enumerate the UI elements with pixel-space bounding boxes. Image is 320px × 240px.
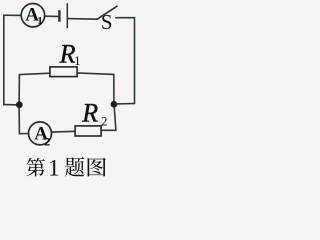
resistor R1 box — [50, 67, 77, 77]
svg-text:2: 2 — [44, 134, 50, 148]
svg-text:R: R — [81, 99, 98, 128]
svg-text:R: R — [59, 40, 76, 69]
ammeter A1 — [21, 4, 44, 27]
wire right vertical — [134, 18, 136, 104]
caption text 第 — [26, 158, 45, 177]
wire A1 to battery — [45, 15, 59, 17]
caption text 题 — [65, 157, 84, 177]
wire left vertical — [3, 15, 5, 104]
wire R2 right — [101, 129, 116, 131]
wire left jog to node A — [4, 104, 16, 106]
wire R1 left — [19, 73, 50, 74]
wire right jog to node B — [117, 103, 135, 105]
node A junction dot — [16, 101, 23, 108]
ammeter A2 — [29, 122, 52, 145]
svg-text:2: 2 — [101, 113, 108, 128]
wire inner right vertical upper (R1 to node B) — [113, 74, 115, 104]
wire node A down to A2 row — [19, 105, 28, 134]
wire R1 right — [77, 73, 114, 75]
battery positive plate — [66, 3, 68, 28]
wire switch to top-right corner — [116, 17, 135, 19]
switch S blade — [97, 6, 117, 19]
wire A2 to R2 — [52, 130, 76, 133]
svg-text:1: 1 — [48, 156, 60, 181]
wire battery to switch — [68, 18, 97, 21]
svg-text:S: S — [101, 10, 113, 34]
caption text 图 — [88, 158, 106, 177]
wire inner left vertical upper (R1 to node A) — [18, 75, 20, 105]
battery negative plate — [58, 10, 60, 22]
node B junction dot — [111, 101, 118, 108]
wire R2 up to node B — [114, 107, 116, 131]
svg-text:1: 1 — [37, 15, 43, 27]
wire top-left horizontal — [4, 14, 21, 16]
svg-text:1: 1 — [74, 53, 81, 68]
resistor R2 box — [75, 126, 101, 136]
